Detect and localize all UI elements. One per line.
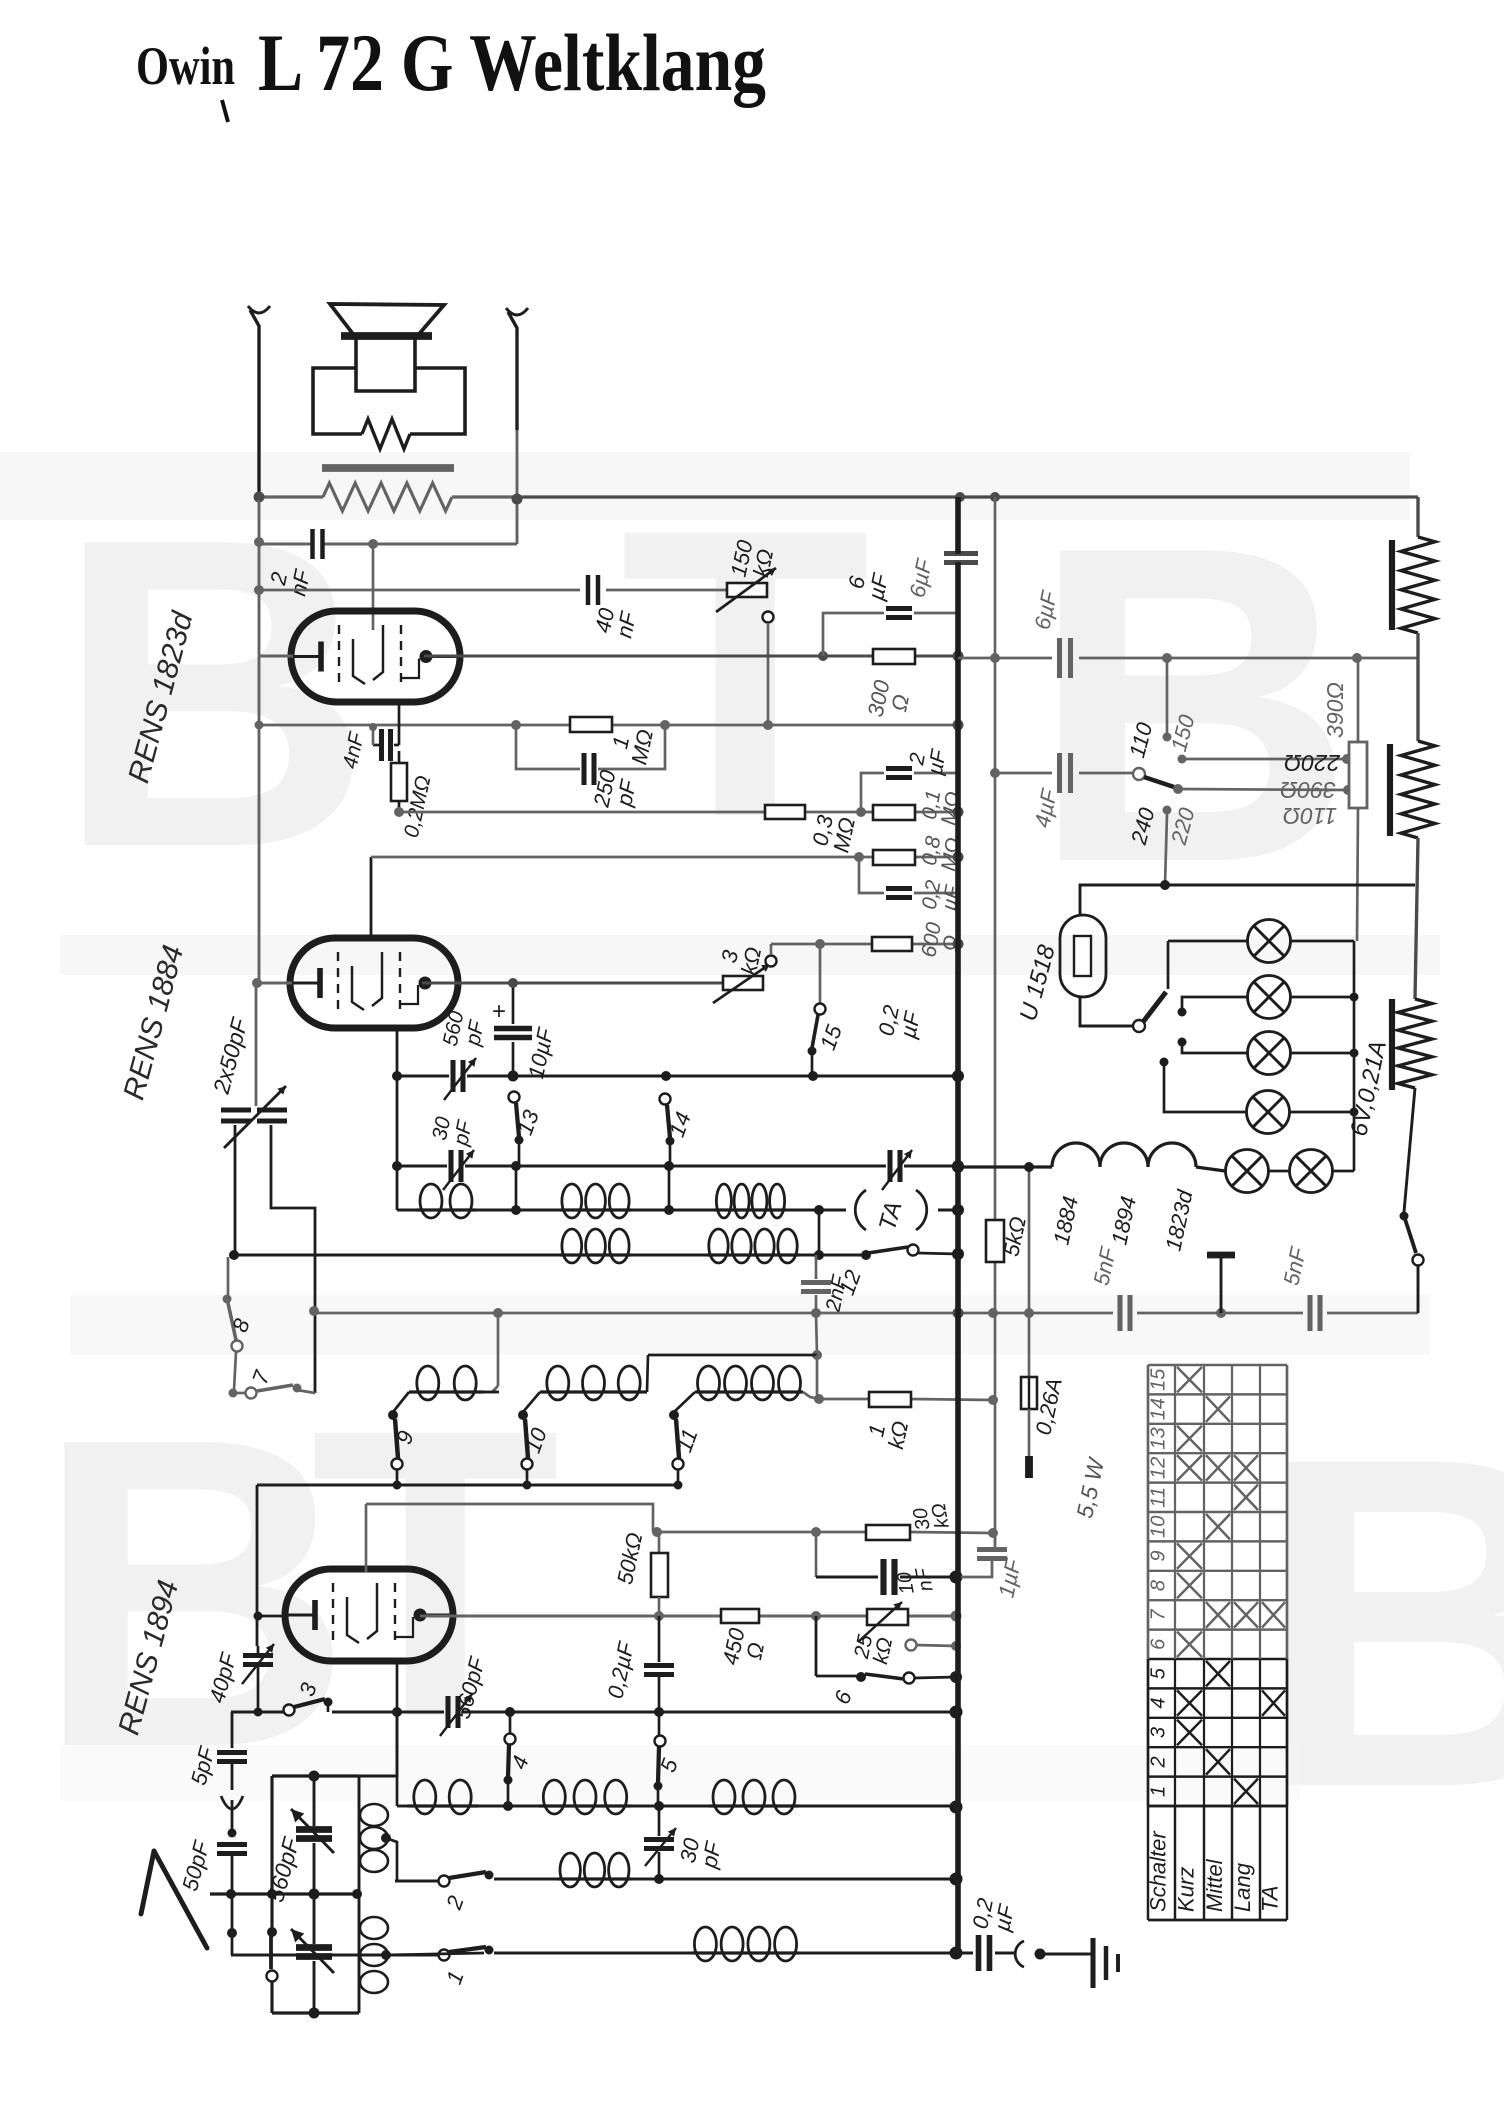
label 5nF right (1278, 1244, 1311, 1288)
switch 1 (439, 1946, 494, 1961)
potentiometer 150kΩ (716, 568, 776, 612)
svg-text:220Ω: 220Ω (1284, 750, 1341, 776)
heater contact b (1178, 997, 1248, 1017)
label 2 (441, 1892, 469, 1913)
node (814, 1394, 998, 1405)
capacitor 0,2µF out (979, 1935, 1015, 1971)
capacitor 4nF (369, 723, 399, 761)
lamp L2 (1248, 976, 1291, 1019)
wire (396, 1028, 399, 1210)
label 30kΩ (909, 1501, 954, 1533)
label 0,3MΩ (807, 811, 860, 855)
label 1µF (993, 1556, 1026, 1600)
resistor 600Ω (872, 937, 912, 951)
node (854, 852, 964, 863)
resistor 1kΩ (869, 1392, 911, 1407)
switch 14 (660, 1094, 675, 1167)
tube U1518 (1060, 915, 1106, 997)
tube RENS 1894 (285, 1569, 453, 1661)
wire 2µF loop (861, 773, 958, 812)
title L 72 G Weltklang (258, 17, 766, 108)
resistor ballast top (1392, 537, 1435, 633)
coil E2 (692, 1927, 799, 1961)
switch 8 (223, 1257, 243, 1390)
label 30pF osc (428, 1113, 478, 1148)
label 150 (1166, 711, 1200, 754)
capacitor 1µF (958, 1533, 1007, 1577)
wire (648, 1354, 817, 1357)
label 0,8MΩ (917, 832, 965, 872)
node (950, 1671, 962, 1683)
wire output row (956, 1952, 973, 1955)
label 150kΩ (726, 537, 780, 583)
node (254, 537, 378, 549)
wire 0,8MΩ row (371, 856, 958, 859)
wire ant coil row1 (397, 1805, 956, 1808)
switch 5 (654, 1712, 666, 1806)
label 110Ω (1283, 803, 1337, 829)
pot wiper 3k (766, 944, 777, 967)
node (511, 1160, 964, 1172)
label 4µF (1029, 786, 1062, 830)
label 6µF rail (904, 556, 937, 600)
lamp L4 (1247, 1091, 1290, 1134)
resistor heater dropper (1392, 999, 1432, 1090)
label 5pF (186, 1743, 220, 1788)
label 7 (247, 1367, 275, 1388)
selector contact 150 (1178, 754, 1353, 764)
coil D2 (539, 1780, 631, 1814)
label 12 (834, 1267, 866, 1299)
potentiometer 25kΩ (858, 1602, 908, 1642)
node (811, 1527, 998, 1538)
svg-text:11: 11 (1148, 1487, 1170, 1508)
trimmer TA coupling (882, 1150, 912, 1190)
resistor 300Ω (873, 649, 915, 664)
wire (816, 1313, 817, 1355)
node (508, 1070, 965, 1082)
wire grid lead tube3 top (365, 1504, 368, 1572)
switch 6 (816, 1616, 956, 1684)
wire anode tube3 row (420, 1615, 956, 1618)
node (227, 1928, 237, 1938)
wire 0,1MΩ row (861, 811, 958, 814)
wire (523, 1392, 540, 1412)
capacitor 50pF (217, 1829, 247, 1956)
svg-text:B: B (1030, 454, 1355, 956)
node (952, 1161, 1034, 1173)
svg-text:kΩ: kΩ (928, 1501, 954, 1530)
wire gang mid rail (210, 1889, 362, 1900)
capacitor 5nF left (1120, 1295, 1130, 1331)
label 2nF af (821, 1272, 851, 1314)
coil A3 (715, 1184, 786, 1218)
label 600Ω (917, 920, 965, 962)
label 560pF gang (262, 1833, 304, 1905)
label RENS 1884 (117, 942, 190, 1104)
wire (516, 1166, 669, 1210)
label 0,2MΩ (400, 774, 436, 840)
wire switch bank common (257, 1470, 678, 1485)
wire (816, 1355, 819, 1399)
label 50kΩ (612, 1530, 647, 1586)
coil gang lower (359, 1894, 388, 2013)
switch 10 (518, 1410, 533, 1470)
coil B1 (560, 1229, 631, 1263)
lamp L5 (1226, 1150, 1269, 1193)
coil D1 (407, 1780, 478, 1814)
wire 2nF row (259, 543, 517, 546)
svg-text:110Ω: 110Ω (1283, 803, 1337, 829)
capacitor 5pF (217, 1753, 247, 1791)
wire (492, 1313, 498, 1392)
svg-text:Owin: Owin (136, 36, 235, 96)
svg-text:10: 10 (1148, 1516, 1170, 1538)
variable capacitor 560pF upper (291, 1771, 334, 1895)
node (1160, 880, 1170, 890)
node (392, 1071, 402, 1171)
label 10nF (893, 1565, 938, 1597)
wire wiper to tap (1178, 785, 1353, 795)
label 10 (520, 1424, 552, 1456)
title Owin (136, 36, 235, 96)
tuning gang left side (270, 1776, 273, 1894)
capacitor 10µF (492, 978, 532, 1076)
wire 600Ω row (771, 943, 958, 946)
wire 6µF row (958, 657, 1418, 660)
stray mark (222, 100, 228, 122)
variable capacitor 560pF lower (291, 1894, 334, 2013)
svg-text:4: 4 (1148, 1698, 1170, 1709)
node (511, 1205, 824, 1215)
heater winding (958, 1143, 1225, 1171)
tuning gang top edge (272, 1714, 397, 1776)
svg-text:Mittel: Mittel (1202, 1858, 1227, 1912)
svg-text:1: 1 (1148, 1786, 1170, 1797)
label 300Ω (863, 677, 917, 723)
capacitor 6µF rail (944, 554, 978, 563)
label 1884 (1048, 1194, 1083, 1247)
wire (1080, 997, 1133, 1026)
trimmer 30pF osc (443, 1150, 474, 1190)
label 450Ω (718, 1625, 772, 1671)
lamp L3 (1248, 1032, 1291, 1075)
svg-text:12: 12 (1148, 1457, 1170, 1479)
svg-text:7: 7 (1148, 1608, 1170, 1620)
wire 4µF row (995, 772, 1133, 775)
svg-text:390Ω: 390Ω (1322, 682, 1348, 738)
wire (396, 1712, 399, 1806)
svg-text:Schalter: Schalter (1146, 1830, 1171, 1912)
wire (1289, 997, 1354, 1112)
label 0,26A (1030, 1376, 1066, 1437)
switch 15 (808, 944, 826, 1076)
label RENS 1894 (112, 1577, 185, 1739)
watermark (0, 444, 1504, 1885)
wire heater line (1028, 1167, 1031, 1377)
label 2µF (904, 743, 951, 777)
label 11 (671, 1425, 702, 1455)
transformer primary winding (362, 419, 410, 449)
switch 13 (509, 1092, 524, 1167)
coil C3 (695, 1366, 803, 1400)
wire right edge (1416, 497, 1419, 537)
coil B2 (707, 1229, 799, 1263)
wire (271, 1125, 315, 1393)
wire (674, 1392, 695, 1412)
wire osc row1 (397, 1075, 958, 1078)
label 9 (391, 1427, 419, 1447)
switch 9 (388, 1410, 403, 1470)
node (818, 651, 964, 662)
node (950, 1947, 963, 1960)
node (255, 720, 964, 731)
wire grid lead tube3 bottom (396, 1658, 399, 1712)
wire (1028, 1409, 1031, 1478)
wire (647, 1355, 648, 1392)
trimmer 30pF ant (644, 1806, 676, 1879)
label 0,2µF g2 (918, 878, 965, 915)
node (950, 1571, 963, 1584)
label U1518 (1015, 942, 1061, 1024)
svg-text:B: B (1255, 1360, 1504, 1885)
svg-text:6: 6 (1148, 1638, 1170, 1650)
heater contact c (1178, 1038, 1248, 1054)
wire 40nF row (259, 589, 727, 592)
wire (1415, 838, 1418, 999)
speaker terminal right (506, 308, 528, 430)
capacitor 10nF (884, 1559, 895, 1595)
resistor 30kΩ (866, 1525, 910, 1540)
wire (1416, 633, 1419, 741)
speaker terminal left (248, 306, 270, 500)
tuning gang bottom edge (272, 2008, 359, 2019)
node (254, 585, 264, 595)
capacitor 0,2µF g2 (886, 889, 912, 898)
wire coil row B (234, 1254, 866, 1257)
coil A2 (560, 1184, 631, 1218)
node (1350, 993, 1359, 1117)
voltage selector (1133, 768, 1183, 794)
switch 3 (284, 1698, 333, 1716)
node (254, 1706, 963, 1719)
svg-text:µF: µF (938, 883, 965, 914)
label 390Ω vert (1322, 682, 1348, 738)
label 4nF (339, 729, 369, 770)
resistor 50kΩ (651, 1527, 668, 1616)
wire (231, 1712, 234, 1748)
wire cathode tube2 (252, 978, 292, 988)
selector contact 240 (1163, 806, 1172, 886)
label 0,2µF mid (873, 1003, 925, 1043)
node (254, 492, 265, 503)
coil C1 (409, 1366, 499, 1400)
wire grid lead tube1 top (372, 544, 375, 630)
node (503, 1801, 963, 1814)
node (229, 1250, 824, 1260)
wire (516, 430, 519, 544)
svg-text:9: 9 (1148, 1551, 1170, 1562)
wire (803, 1392, 819, 1399)
label 5,5W (1071, 1454, 1109, 1520)
transformer secondary winding (259, 483, 517, 511)
label TA (874, 1199, 908, 1234)
wire (255, 983, 258, 1106)
node (952, 1248, 964, 1260)
node (990, 653, 1362, 663)
svg-text:L 72 G Weltklang: L 72 G Weltklang (258, 17, 766, 108)
node (952, 1204, 964, 1216)
label 6µF psu (1029, 588, 1062, 632)
wire osc row2 (397, 1165, 958, 1168)
coil A1 (416, 1184, 476, 1218)
capacitor 2µF (886, 769, 912, 778)
capacitor 5nF right (1310, 1295, 1320, 1331)
wire anode tube1 row (424, 655, 958, 658)
svg-text:13: 13 (1148, 1427, 1170, 1449)
label 1894 (1106, 1194, 1141, 1247)
wire ant coil row2 (395, 1879, 956, 1881)
trimmer 560pF osc (444, 1058, 476, 1100)
wire detector row (231, 1711, 956, 1714)
wire (1080, 885, 1415, 915)
wire grid lead tube2 top (370, 857, 373, 940)
heater contact d (1160, 1058, 1247, 1113)
wire 1kΩ row (819, 1399, 993, 1400)
resistor 1MΩ (570, 717, 612, 732)
node (856, 807, 964, 818)
speaker cone (330, 304, 444, 336)
phono jack (1015, 1941, 1088, 1967)
label 2nF (264, 562, 316, 598)
label 1 (441, 1967, 469, 1987)
trimmer 40pF (242, 1644, 274, 1712)
label 10µF (523, 1025, 558, 1081)
node (815, 939, 964, 950)
svg-text:Kurz: Kurz (1174, 1867, 1199, 1912)
pot wiper 150k (763, 612, 774, 726)
resistor 450Ω (721, 1609, 759, 1623)
svg-text:Lang: Lang (1230, 1862, 1255, 1912)
svg-text:14: 14 (1148, 1398, 1170, 1420)
label 3 (294, 1679, 322, 1700)
resistor 0,1MΩ (873, 805, 915, 820)
node (955, 492, 1000, 502)
label 5 (655, 1755, 683, 1776)
trimmer 560pF det (440, 1694, 472, 1736)
wire (234, 1125, 237, 1255)
label 240 (1126, 804, 1160, 848)
wire tap lower (381, 1950, 484, 1960)
resistor 5kΩ (986, 1220, 1004, 1262)
label 30pF ant (675, 1834, 727, 1871)
wire coil row A (397, 1209, 846, 1212)
switch 4 (504, 1712, 516, 1806)
capacitor 40nF (588, 575, 598, 605)
wire (393, 1392, 409, 1412)
label 8 (227, 1315, 255, 1336)
label 1kΩ (862, 1414, 914, 1451)
switch gang (267, 1894, 278, 2013)
wire B+ top rail (517, 495, 1418, 498)
tube RENS 1823d (291, 611, 460, 702)
label 15 (815, 1021, 847, 1053)
potentiometer 3kΩ (713, 964, 770, 1003)
label 250pF (588, 767, 642, 814)
ground (1088, 1938, 1118, 1988)
wire 6µF branch (823, 613, 958, 656)
selector contact 110 (1163, 658, 1172, 742)
coil C2 (540, 1366, 647, 1400)
wire 250pF loop (516, 725, 665, 769)
wire (256, 1485, 259, 1646)
antenna (141, 1851, 207, 1948)
node (990, 768, 1000, 778)
label 50pF (177, 1837, 215, 1893)
label 2x50pF (208, 1014, 254, 1098)
capacitor 6µF psu (1060, 638, 1071, 678)
wire (818, 1210, 821, 1255)
label 40nF (590, 604, 642, 640)
switch 2 (439, 1871, 494, 1887)
svg-text:B: B (55, 448, 373, 939)
node (654, 1873, 963, 1886)
lamp L1 (1248, 920, 1291, 963)
rail second (994, 497, 997, 1549)
label 40pF (204, 1649, 242, 1705)
heater switch (1133, 941, 1247, 1032)
wire grid row tube3 (366, 1504, 653, 1532)
switch 11 (669, 1410, 684, 1470)
switch mains (1400, 1088, 1424, 1313)
switch 12 (861, 1245, 958, 1261)
svg-text:3: 3 (1148, 1727, 1170, 1738)
label RENS 1823d (122, 607, 200, 786)
label 0,1MΩ (917, 786, 965, 826)
resistor 0,3MΩ (765, 805, 805, 819)
label 220Ω (1284, 750, 1341, 776)
pot wiper 25k (906, 1640, 962, 1652)
label 6µF (842, 566, 894, 604)
node (309, 1306, 319, 1316)
wire cathode tube3 (254, 1612, 288, 1621)
capacitor 250pF (584, 753, 594, 785)
label 4 (506, 1752, 534, 1772)
svg-text:TA: TA (1258, 1886, 1283, 1912)
wire 0,3MΩ row (399, 811, 861, 814)
wire grid lead tube1 bottom (398, 700, 401, 745)
svg-text:15: 15 (1148, 1368, 1170, 1391)
wire tap upper (381, 1833, 438, 1881)
wire AVC row (314, 1312, 1418, 1315)
wire 10nF loop (816, 1532, 956, 1577)
svg-text:5: 5 (1148, 1667, 1170, 1679)
label 6 (829, 1687, 857, 1708)
label 110 (1124, 719, 1157, 760)
wire lamp bus (1269, 941, 1354, 1171)
label 560pF osc (439, 1009, 490, 1053)
switch 7 (229, 1384, 316, 1399)
resistor 0,8MΩ (873, 850, 915, 865)
coil D3 (709, 1780, 799, 1814)
svg-text:+: + (492, 998, 506, 1025)
transformer core (322, 464, 454, 472)
TA pickup jack (855, 1190, 958, 1230)
capacitor 0,2µF tube3 (644, 1616, 674, 1712)
antenna jack fork (221, 1796, 243, 1836)
label 3kΩ (715, 940, 767, 977)
label 5nF left (1088, 1244, 1121, 1288)
